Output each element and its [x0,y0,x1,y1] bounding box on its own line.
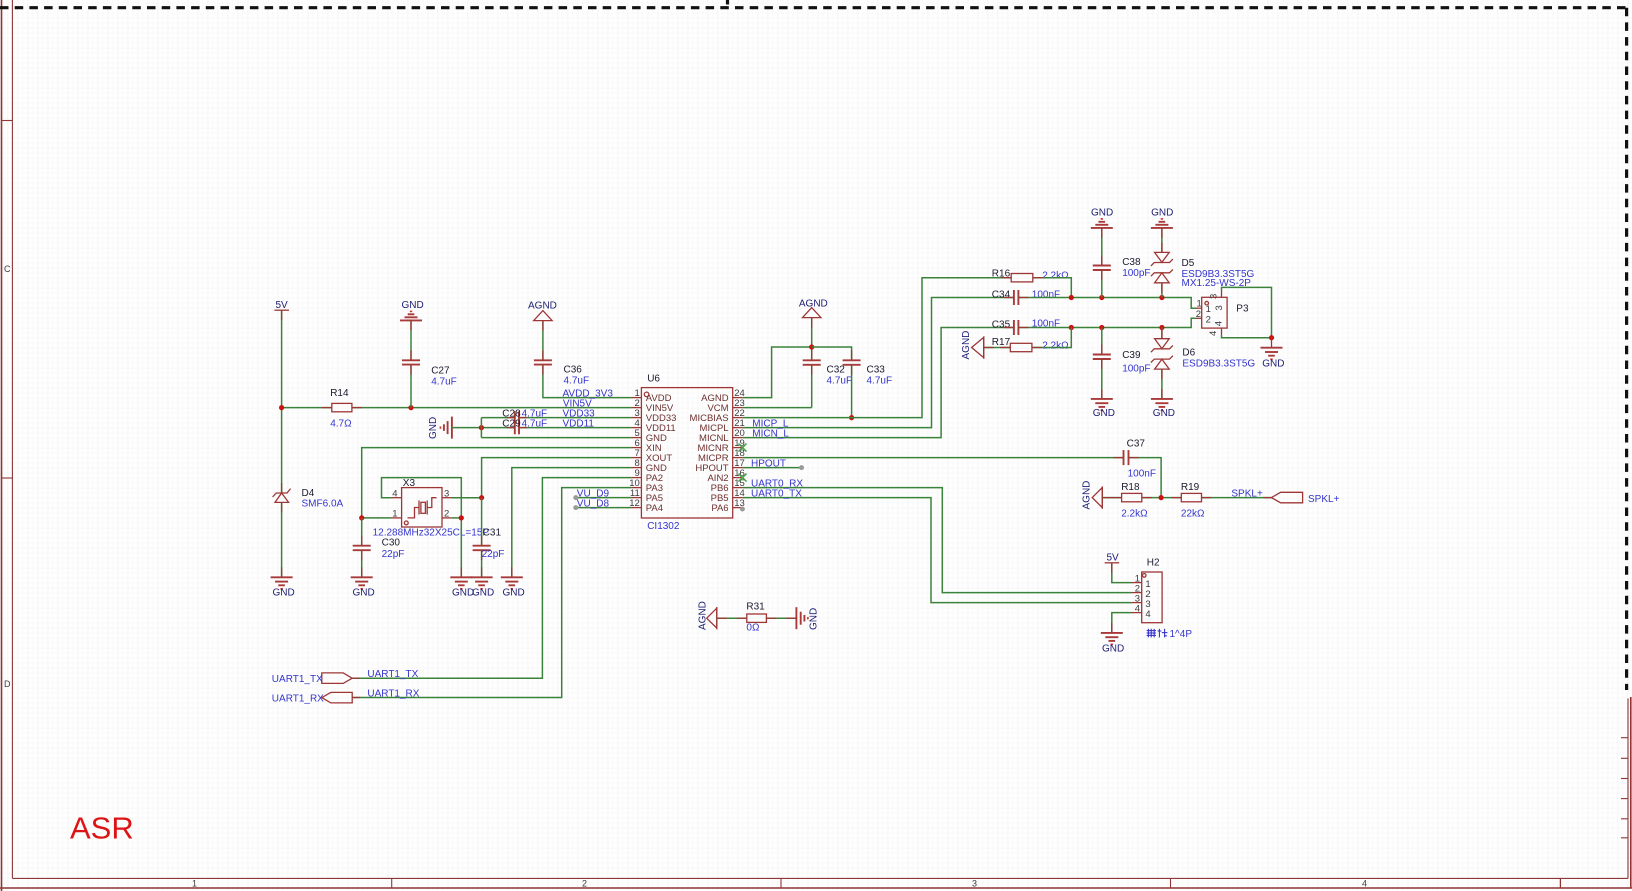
svg-text:4.7uF: 4.7uF [867,376,893,387]
svg-text:UART1_RX: UART1_RX [367,689,419,700]
power flag AGND above C36 [528,301,557,321]
GND stem pin8 [511,567,513,577]
wire AGND to C33 [812,347,852,360]
svg-text:12.288MHz32X25CL=15P: 12.288MHz32X25CL=15P [373,528,490,539]
sheet frame bottom inner border [12,877,1628,879]
svg-text:4: 4 [1135,604,1140,615]
power flag AGND at R18 (rotated) [1082,481,1103,510]
wire GND to D5 [1161,228,1163,253]
wire AVDD_3V3 net [543,365,632,398]
svg-text:D6: D6 [1182,348,1195,359]
ground GND pin8 [501,577,525,598]
svg-text:UART0_TX: UART0_TX [751,489,802,500]
junction C33 MICBIAS [849,415,854,420]
junction GND C28 C29 [479,425,484,430]
right border tick y=758 [1621,757,1628,759]
wire XOUT net [452,458,631,498]
svg-text:P3: P3 [1236,304,1249,315]
left border tick y=120 [2,120,12,122]
capacitor C27 [402,360,420,364]
svg-text:1^4P: 1^4P [1170,629,1193,640]
ground GND above D5 (inverted) [1151,208,1173,228]
R31 leads [737,617,777,619]
svg-text:SPKL+: SPKL+ [1308,494,1340,505]
svg-text:R17: R17 [992,337,1011,348]
svg-text:22kΩ: 22kΩ [1181,509,1205,520]
C39 leads [1101,345,1103,370]
C36 leads [542,350,544,374]
C33 leads [851,350,853,375]
power flag AGND at R17 (rotated) [961,331,984,360]
junction crystal pin2 [459,515,464,520]
C35 leads [1004,327,1029,329]
wire HPOUT stub [743,467,802,469]
wire R18 to R19 [1142,497,1182,499]
ground GND under C30 [351,577,375,598]
svg-text:2: 2 [582,879,587,889]
wire 5V to H2 pin1 [1112,563,1132,583]
svg-text:AGND: AGND [1082,481,1093,510]
svg-text:5V: 5V [1107,553,1120,564]
ground GND sideways right of R31 [796,607,819,630]
capacitor C29 [515,422,519,435]
wire D6 to GND [1161,369,1163,398]
C38 leads [1101,256,1103,281]
no-connect cross pin19 [739,444,747,452]
SPKL+ flag stub [1263,497,1271,499]
svg-text:GND: GND [273,588,295,599]
right border tick y=737 [1621,737,1628,739]
ground GND at P3 [1261,338,1285,370]
svg-text:SPKL+: SPKL+ [1231,488,1263,499]
C32 leads [811,350,813,375]
junction C37 R18 [1159,495,1164,500]
wire GND to C38 [1101,228,1103,265]
svg-text:1: 1 [192,879,197,889]
ground GND sideways (VDD decoupling, pointing left) [428,417,452,439]
sheet frame left inner border [11,0,13,878]
svg-text:SMF6.0A: SMF6.0A [302,499,344,510]
svg-text:100nF: 100nF [1032,290,1060,301]
svg-text:PA6: PA6 [711,503,728,514]
value paizhen 1*4P [1147,629,1168,638]
svg-text:HPOUT: HPOUT [751,458,786,469]
svg-text:R14: R14 [330,388,349,399]
GND sideways stem at R31 [786,617,796,619]
GND stem under C31 [481,567,483,577]
svg-text:AGND: AGND [961,331,972,360]
U6 left pin leads 1-12 [631,398,641,508]
wire MICN_L net [743,328,1014,438]
junction P3 GND [1269,335,1274,340]
connector H2 body [1132,572,1163,623]
C31 leads [481,536,483,561]
wire PA5 stub [576,497,632,499]
svg-text:GND: GND [353,588,375,599]
svg-text:ESD9B3.3ST5G: ESD9B3.3ST5G [1182,359,1255,370]
svg-text:VDD11: VDD11 [563,419,595,430]
wire C39 to GND [1101,359,1103,398]
svg-text:AGND: AGND [799,299,828,310]
junction C27 VIN5V [408,405,413,410]
capacitor C38 [1093,266,1111,271]
svg-text:0Ω: 0Ω [746,623,760,634]
svg-text:4: 4 [1145,609,1150,620]
GND stem under C30 [361,567,363,577]
capacitor C33 [843,360,861,365]
svg-text:GND: GND [503,588,525,599]
svg-text:12: 12 [629,498,640,509]
wire C28 to pin3 [519,417,631,419]
svg-text:PA4: PA4 [646,503,663,514]
5V stem at H2 [1111,563,1113,573]
svg-text:2.2kΩ: 2.2kΩ [1042,271,1069,282]
resistor R18 [1122,493,1142,501]
ground GND under C31 [471,577,495,598]
capacitor C36 [534,360,552,364]
svg-text:GND: GND [1262,359,1284,370]
C34 leads [1004,297,1029,299]
wire AGND pin24 net [743,347,812,398]
R18 leads [1112,497,1152,499]
svg-text:C34: C34 [992,290,1011,301]
ground GND above C38 (inverted) [1091,208,1113,228]
wire GND row pin5 [481,437,631,439]
bottom border tick x=781 [780,878,782,888]
svg-text:4.7uF: 4.7uF [431,377,457,388]
AGND stem above C36 [542,321,544,331]
sheet frame right outer border [1630,697,1632,888]
wire UART0_RX net [743,488,1132,593]
C30 leads [361,536,363,561]
svg-text:1: 1 [1206,304,1211,315]
power symbol stems maroon [282,228,1272,698]
svg-text:C: C [4,264,11,274]
svg-text:D: D [4,679,11,689]
U6 right pin numbers [734,388,745,509]
svg-text:VU_D8: VU_D8 [577,499,610,510]
C29 leads [507,427,527,429]
port flag SPKL+ [1271,492,1339,505]
ground GND under D6 [1151,399,1175,419]
sheet frame right inner border [1627,699,1629,879]
svg-text:5V: 5V [276,300,289,311]
wire AGND to R17 [984,347,1011,349]
right border tick y=778 [1621,778,1628,780]
resistor R31 [747,614,767,622]
wire C31 to GND [481,550,483,577]
resistor R19 [1181,493,1201,501]
AGND stem at R18 [1102,497,1112,499]
svg-text:GND: GND [1153,408,1175,419]
wire crystal case pin4 loop [382,478,462,577]
GND stem at H2 [1111,623,1113,633]
R17 leads [1000,347,1042,349]
U6 right pin names [690,393,729,514]
junction MICN C39 [1099,325,1104,330]
selection marquee right dashed line [1625,8,1628,690]
wire R31 to GND [766,617,796,619]
svg-text:C32: C32 [827,365,846,376]
selection marquee top dashed line [0,6,1627,9]
D5 leads [1161,242,1163,292]
wire C29 to pin4 [519,427,631,429]
junction MICP D5 [1159,295,1164,300]
svg-text:R19: R19 [1181,482,1200,493]
wire C34 to P3 pin1 [1018,298,1195,309]
wire H2 pin4 to GND [1112,613,1132,633]
bottom border tick x=1560 [1559,878,1561,888]
svg-text:GND: GND [428,417,439,439]
wire AGND stem to junction [811,318,813,360]
right border tick y=837 [1621,837,1628,839]
svg-text:3: 3 [972,879,977,889]
svg-text:100nF: 100nF [1128,469,1156,480]
svg-text:H2: H2 [1147,558,1160,569]
wire R19 to SPKL+ flag [1202,497,1272,499]
svg-text:C30: C30 [382,538,401,549]
IC U6 CI1302 body [641,388,732,518]
wire crystal pin2 stub [452,517,461,519]
svg-text:X3: X3 [403,478,416,489]
svg-text:MICN_L: MICN_L [752,428,789,439]
svg-text:C35: C35 [992,320,1011,331]
svg-text:2.2kΩ: 2.2kΩ [1042,341,1069,352]
bottom border tick x=391 [391,878,393,888]
dangling dot VU_D9 [573,495,578,500]
ground GND above C27 (inverted) [400,300,424,320]
wire MICPR to C37 [743,457,1124,459]
svg-text:22pF: 22pF [482,549,505,560]
wire C27 to VIN5V row [410,365,412,408]
svg-text:2: 2 [1196,309,1201,320]
wire XIN net [362,448,632,518]
R14 leads [322,407,362,409]
svg-text:UART1_RX: UART1_RX [272,694,324,705]
dangling dot VU_D8 [573,505,578,510]
wire 5V vertical [281,310,283,493]
resistor R17 [1010,343,1032,351]
junction AGND C32 [809,344,814,349]
svg-text:100pF: 100pF [1122,268,1150,279]
diode D5 ESD9B3.3ST5G (bidirectional TVS) [1151,252,1173,282]
wire P3 pin3 to GND [1222,287,1272,337]
ground GND at H2 [1101,633,1124,655]
svg-text:4: 4 [1214,321,1225,326]
svg-text:C38: C38 [1122,257,1141,268]
wire VDD11 row with C29 [481,427,514,429]
resistor R16 [1011,274,1033,282]
svg-text:2: 2 [444,509,449,520]
wire C31 stem [481,498,483,546]
svg-text:C33: C33 [867,365,886,376]
GND stems under C39 D6 [1101,389,1103,399]
wire MICBIAS net to R16 [743,278,1012,418]
junction XIN [359,515,364,520]
sheet frame bottom outer border [0,887,1632,889]
svg-text:C37: C37 [1127,439,1146,450]
R16 leads [1001,277,1043,279]
junction MICP C38 [1099,295,1104,300]
IC U6 pin1 marker circle [644,392,649,397]
right border tick y=818 [1621,818,1628,820]
wire AGND to R31 [717,617,747,619]
AGND stem at R31 [717,617,727,619]
wire D4 to GND [281,502,283,576]
dangling dot pin13 PA6 [740,507,745,512]
wire GND pin8 net [512,468,632,577]
diode D6 ESD9B3.3ST5G (bidirectional TVS) [1151,339,1173,369]
C37 leads [1114,457,1139,459]
crystal X3 [392,488,452,527]
power flag 5V at H2 [1105,553,1120,564]
capacitor C31 [473,546,491,551]
svg-text:4.7uF: 4.7uF [827,376,853,387]
ground GND under crystal case [450,577,474,598]
svg-text:22pF: 22pF [382,549,405,560]
wire C30 to GND [361,550,363,577]
junction XOUT [479,495,484,500]
wire C33 to MICBIAS row [851,365,853,418]
power flag AGND at R31 (rotated) [698,601,717,630]
wire R17 up to MICN row [1032,328,1071,348]
GND stems above C38 D5 [1101,228,1103,238]
wire C35 to P3 pin2 [1018,318,1195,327]
svg-text:3: 3 [1209,294,1220,299]
wire PA2 to UART1_TX [352,478,631,679]
svg-text:U6: U6 [647,374,660,385]
port flag UART1_TX [272,673,352,685]
svg-text:C39: C39 [1122,350,1141,361]
svg-text:UART1_TX: UART1_TX [272,674,323,685]
svg-text:C27: C27 [431,366,450,377]
ground GND under C39 [1091,399,1115,419]
svg-text:GND: GND [1091,208,1113,219]
wire D6 stem [1161,328,1163,339]
resistor R14 [282,403,352,411]
wire MICP_L net [743,298,1014,428]
svg-text:GND: GND [472,588,494,599]
UART1_TX flag stub [352,677,360,679]
GND stem under crystal case [460,567,462,577]
C27 leads [410,350,412,374]
junction MICP R16 [1069,295,1074,300]
wire UART0_TX net [743,498,1132,603]
AGND stem above C32 [811,318,813,328]
svg-text:4: 4 [392,488,397,499]
svg-text:100pF: 100pF [1122,364,1150,375]
svg-text:4: 4 [1208,331,1219,336]
GND stem above C27 [410,320,412,330]
capacitor C32 [803,360,821,365]
capacitor C30 [353,546,371,551]
wire AGND to R18 [1102,497,1121,499]
capacitor C37 [1124,450,1129,465]
no-connect cross pin16 [739,474,747,482]
svg-text:GND: GND [1151,208,1173,219]
svg-text:GND: GND [452,588,474,599]
wire VCM row pin23 [743,407,812,409]
svg-text:GND: GND [1102,644,1124,655]
junction MICN R17 [1069,325,1074,330]
svg-text:2: 2 [1206,315,1211,326]
capacitor C35 [1014,320,1019,335]
svg-text:C36: C36 [564,365,583,376]
AGND stem at R17 [984,347,994,349]
connector P3 body [1195,290,1227,335]
U6 left pin names [646,393,677,514]
wire D5 to MICP row [1161,283,1163,298]
wire R16 to MICP row [1033,278,1072,298]
R19 leads [1171,497,1211,499]
junction 5V R14 [279,405,284,410]
wire PA3 to UART1_RX [352,488,631,698]
stray dash at top x=727 [726,0,729,5]
wire C38 to MICP row [1101,270,1103,298]
power flag AGND above C32 [799,299,828,318]
diode D4 (SMF6.0A zener) [273,489,291,503]
svg-text:R31: R31 [746,602,765,613]
svg-text:AGND: AGND [528,301,557,312]
U6 left pin numbers [629,388,640,509]
bottom border tick x=1170 [1170,878,1172,888]
svg-text:C31: C31 [483,528,502,539]
capacitor C34 [1014,290,1019,305]
left border tick y=478 [2,477,12,479]
svg-text:4.7uF: 4.7uF [564,376,590,387]
U6 right pin leads 24-13 [733,398,743,508]
5V stem left [281,310,283,320]
svg-text:4: 4 [1362,879,1367,889]
wire GND to C28/C29 junction [452,427,482,429]
svg-text:D4: D4 [302,488,315,499]
svg-text:AGND: AGND [698,601,709,630]
svg-text:2.2kΩ: 2.2kΩ [1121,509,1148,520]
dangling dot HPOUT [799,465,804,470]
junction MICN D6 [1159,325,1164,330]
D4 leads [281,483,283,512]
C28 leads [507,417,527,419]
svg-text:4.7Ω: 4.7Ω [330,419,352,430]
right border tick y=798 [1621,798,1628,800]
wire AGND to C36 [542,321,544,360]
wire C39 stem [1101,328,1103,355]
svg-text:UART1_TX: UART1_TX [367,669,418,680]
UART1_RX flag stub [352,697,360,699]
wire VIN5V row [352,407,632,409]
wire PA4 stub [576,507,632,509]
power flag 5V (left) [274,300,289,311]
wire C32 to VCM row [811,365,813,408]
capacitor C39 [1093,355,1111,360]
wire P3 pin4 to GND [1222,335,1272,337]
wire GND to C27 [410,320,412,359]
sheet frame left outer border [1,0,3,891]
capacitor C28 [515,411,519,424]
svg-text:R18: R18 [1121,482,1140,493]
wire C37 down to R18 row [1129,458,1162,498]
svg-text:3: 3 [444,488,449,499]
svg-text:CI1302: CI1302 [647,521,680,532]
ground GND under D4 [271,577,295,598]
D6 leads [1161,329,1163,379]
wire VDD33 row with C28 [481,417,514,419]
svg-text:D5: D5 [1182,258,1195,269]
wire C30 stem [361,518,363,545]
svg-text:ASR: ASR [70,811,134,846]
svg-text:GND: GND [402,300,424,311]
svg-text:GND: GND [1093,408,1115,419]
